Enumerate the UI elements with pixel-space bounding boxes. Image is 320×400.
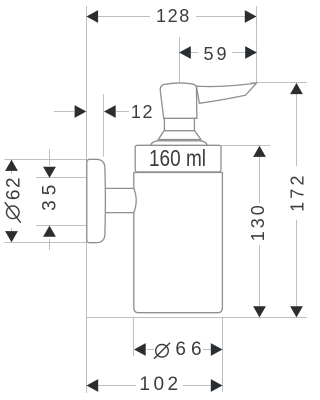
dimension 102: [87, 374, 223, 395]
wire 35-bottom extension line: [36, 225, 87, 227]
wire 35-top extension line: [36, 177, 87, 179]
dimension 130: [248, 146, 268, 318]
dimension diameter 66: [134, 339, 223, 360]
svg-text:66: 66: [175, 339, 206, 360]
wire bottle-left extension line: [133, 318, 135, 357]
svg-text:172: 172: [288, 172, 308, 212]
dimension 59: [179, 44, 257, 64]
svg-text:130: 130: [248, 202, 268, 241]
svg-text:62: 62: [3, 176, 24, 200]
svg-text:102: 102: [139, 374, 181, 395]
dimension diameter 62: [3, 160, 24, 242]
wire collar-top extension line: [221, 145, 270, 147]
svg-text:59: 59: [203, 44, 229, 64]
svg-text:12: 12: [131, 102, 154, 122]
dimension 12: [54, 102, 154, 122]
dimension 128: [86, 6, 256, 26]
pump flange: [158, 131, 201, 140]
collar 160 ml: [135, 145, 221, 172]
pump knob: [160, 83, 197, 118]
wire plate-top extension line: [5, 159, 88, 161]
bottle body: [134, 173, 223, 313]
wire wall extension line: [86, 6, 88, 393]
svg-text:128: 128: [156, 6, 191, 26]
wire plate-front extension line: [103, 94, 105, 157]
wire bottle-right extension line: [222, 318, 224, 393]
mounting arm: [104, 188, 136, 212]
svg-text:35: 35: [39, 180, 60, 211]
wire bottom reference line: [86, 317, 307, 319]
pump dome: [151, 141, 208, 146]
wire pump-center extension line: [179, 37, 181, 82]
wall plate side profile: [87, 159, 106, 242]
pump lever spout: [196, 83, 256, 103]
pump neck: [164, 118, 194, 131]
svg-text:160 ml: 160 ml: [149, 145, 206, 171]
dimension 172: [288, 83, 308, 318]
wire plate-bottom extension line: [5, 242, 88, 244]
dimension 35: [39, 149, 60, 250]
wire spout-tip extension line: [256, 6, 258, 83]
wire spout-top extension line: [250, 82, 307, 84]
